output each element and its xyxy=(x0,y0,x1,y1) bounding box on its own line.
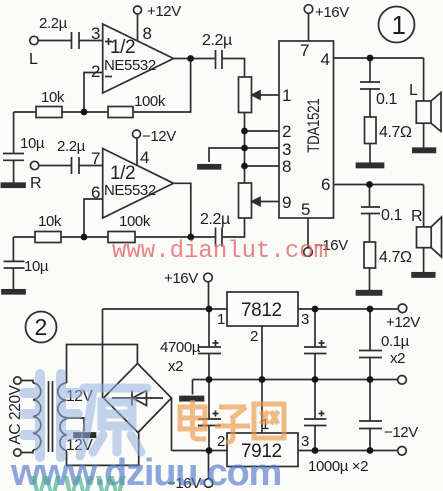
wire pin8 xyxy=(245,165,280,167)
wire 10u to ground xyxy=(13,160,15,183)
wire 0V ground stem xyxy=(192,380,194,395)
wire pin1 wiper xyxy=(258,94,279,96)
wire cap to pot B xyxy=(223,218,245,237)
capacitor 10u L xyxy=(3,154,24,161)
watermark pink dianlut xyxy=(112,238,328,265)
node out R xyxy=(187,234,194,241)
wire node to cap 0.1 L xyxy=(369,58,371,82)
wire +16V terminal xyxy=(208,282,210,309)
secondary winding bottom xyxy=(60,419,67,451)
wire pin9 wiper xyxy=(258,201,279,203)
wire 7912 pin1 xyxy=(261,380,263,434)
wire speaker R to ground xyxy=(423,248,425,273)
wire op-amp B output xyxy=(174,183,191,237)
capacitor 2.2u L input xyxy=(72,32,80,49)
wire cap to pin3 xyxy=(80,40,103,42)
core xyxy=(49,381,53,452)
ground speaker L xyxy=(413,148,436,152)
terminal AC bottom xyxy=(14,449,21,456)
terminal +16V psu xyxy=(204,273,213,282)
wire 4.7 to ground xyxy=(369,144,371,164)
capacitor 2.2u R input xyxy=(72,157,80,174)
ground speaker R xyxy=(412,273,435,277)
wire -16V terminal xyxy=(208,451,210,479)
plus sign c4 xyxy=(319,411,325,417)
plus sign c3 xyxy=(319,340,325,346)
watermark teal www xyxy=(31,463,129,491)
wire pin2 xyxy=(245,130,280,132)
wire to speaker R xyxy=(423,185,425,227)
watermark blue char yuan xyxy=(80,388,147,456)
resistor 10k R xyxy=(35,232,61,243)
node 0v c3 xyxy=(312,376,319,383)
ground L xyxy=(1,183,25,187)
node pot pin3 xyxy=(241,145,248,152)
node dots xyxy=(81,55,374,454)
IC U2 TDA1521 xyxy=(279,41,334,218)
capacitor 10u R xyxy=(4,261,25,268)
speaker R xyxy=(417,227,432,248)
wire secondary top xyxy=(67,345,138,384)
wire pin4 to -12V xyxy=(136,138,138,165)
wire cap to 4.7 xyxy=(369,89,371,117)
wire node B xyxy=(61,236,108,238)
node out L xyxy=(187,55,194,62)
node 0v c5 xyxy=(367,376,374,383)
wire +16V rail xyxy=(103,308,228,310)
resistor 100k R xyxy=(108,232,135,243)
potentiometer RP1 xyxy=(239,77,252,113)
wire node to cap 0.1 R xyxy=(369,185,371,208)
wire +12V rail xyxy=(298,308,398,310)
resistor 4.7ohm L xyxy=(365,117,377,144)
ground zobel L xyxy=(357,163,384,167)
terminal +16V top xyxy=(304,5,313,14)
wire 100k to output xyxy=(133,59,191,113)
circled number 1 xyxy=(379,7,415,43)
capacitor 2.2u R output xyxy=(216,228,223,247)
wire primary bottom xyxy=(21,450,33,453)
plus sign c1 xyxy=(213,340,219,346)
node -16 c2 xyxy=(206,447,213,454)
plus sign c2 xyxy=(213,411,219,417)
node 0v c1 xyxy=(206,376,213,383)
node zobel L xyxy=(367,55,374,62)
node -12 c6 xyxy=(367,447,374,454)
arrow pot B xyxy=(252,198,260,206)
watermark orange char dian xyxy=(180,400,206,439)
wire op-amp A output xyxy=(174,58,215,60)
wire cap to 4.7 R xyxy=(369,214,371,243)
node pot pin2 xyxy=(241,128,248,135)
speaker L xyxy=(416,101,431,123)
resistor 100k L xyxy=(108,107,133,118)
ground 0V rail xyxy=(180,397,204,401)
resistor 4.7ohm R xyxy=(364,242,376,268)
pot A stem xyxy=(244,112,246,183)
node rail12 c3 xyxy=(312,306,319,313)
terminal AC top xyxy=(14,377,21,384)
ground zobel R xyxy=(357,291,382,295)
wire -12V rail xyxy=(298,450,398,452)
circled number 2 xyxy=(26,312,57,343)
node zobel R xyxy=(366,181,373,188)
terminal -16V psu xyxy=(204,479,213,488)
capacitor 1000u no2 xyxy=(304,380,327,451)
resistor 10k L xyxy=(36,107,62,118)
wire 4.7R to ground xyxy=(369,268,371,291)
wire pin4 output L xyxy=(334,57,424,59)
node -12 c4 xyxy=(312,447,319,454)
capacitor 0.1u no2 xyxy=(359,380,382,451)
primary winding xyxy=(33,383,41,450)
arrow pot A xyxy=(252,91,260,99)
wire center tap xyxy=(67,418,85,432)
wire bridge minus vertical xyxy=(171,398,173,451)
wire node A xyxy=(62,111,108,113)
wire 10k-R left xyxy=(13,237,35,261)
terminal +12V xyxy=(134,6,142,14)
terminal -12V xyxy=(133,130,141,138)
capacitor 4700u no1 xyxy=(198,309,221,380)
wire pin6 feedback xyxy=(84,199,103,234)
wire node to cap xyxy=(191,236,215,238)
wire cap to pot A xyxy=(223,59,245,78)
wire 7812 pin2 xyxy=(261,326,263,380)
input terminal R xyxy=(30,161,38,169)
op-amp U1B NE5532 xyxy=(103,149,174,219)
watermark blue char fei xyxy=(24,374,78,457)
wire speaker L to ground xyxy=(423,123,425,148)
wire secondary bottom xyxy=(67,432,139,465)
watermark orange char zi xyxy=(215,407,250,442)
node fb L xyxy=(81,109,88,116)
wire L input xyxy=(38,40,71,42)
wire pin8 to +12V xyxy=(137,14,139,41)
wire -16V rail xyxy=(172,450,228,452)
wire to speaker L xyxy=(423,58,425,101)
wire pin5 supply xyxy=(307,218,309,248)
watermark blue dziuu xyxy=(11,452,281,491)
capacitor 4700u no2 xyxy=(198,380,221,451)
node rail16 c1 xyxy=(206,306,213,313)
diode inside bridge xyxy=(112,391,163,406)
terminal -12V xyxy=(398,447,407,456)
wire pin2 feedback xyxy=(84,73,103,110)
capacitor 1000u no1 xyxy=(304,309,327,380)
wire bridge plus vertical xyxy=(102,309,104,398)
wire pin6 output R xyxy=(334,184,424,186)
op-amp U1A NE5532 xyxy=(103,24,174,93)
wire 10u R to ground xyxy=(12,268,14,290)
capacitor 0.1u no1 xyxy=(359,309,382,380)
node 0v reg xyxy=(259,376,266,383)
terminal +12V xyxy=(398,304,407,313)
potentiometer RP2 xyxy=(239,183,252,218)
regulator 7912 xyxy=(227,433,298,467)
wire primary top xyxy=(21,381,33,384)
wire 100k to output node xyxy=(135,236,191,238)
secondary winding top xyxy=(58,383,67,418)
BRIDGE rectifier xyxy=(104,364,172,433)
node fb R xyxy=(81,234,88,241)
ground pin3 xyxy=(198,165,221,169)
wire pin7 supply xyxy=(308,13,310,41)
terminal -16V mid xyxy=(304,248,313,257)
wire R input xyxy=(39,165,71,167)
wire pin3 to ground xyxy=(209,148,279,162)
input terminal L xyxy=(30,36,38,44)
ground center tap xyxy=(74,433,96,437)
terminal 0V xyxy=(398,376,407,385)
capacitor 2.2u L output xyxy=(216,50,223,69)
capacitor 0.1 R xyxy=(361,207,380,214)
ground R xyxy=(2,290,25,294)
capacitor 0.1 L xyxy=(360,82,380,89)
node rail12 c5 xyxy=(367,306,374,313)
wire cap to pin7 xyxy=(80,165,103,167)
regulator 7812 xyxy=(227,292,298,326)
wire 0V rail xyxy=(193,379,398,381)
minus marker opA xyxy=(105,76,112,78)
wire 10k-L left xyxy=(14,112,36,153)
node pot pin8 xyxy=(241,163,248,170)
plus marker opA xyxy=(105,38,112,45)
watermark orange char wang xyxy=(254,404,284,438)
